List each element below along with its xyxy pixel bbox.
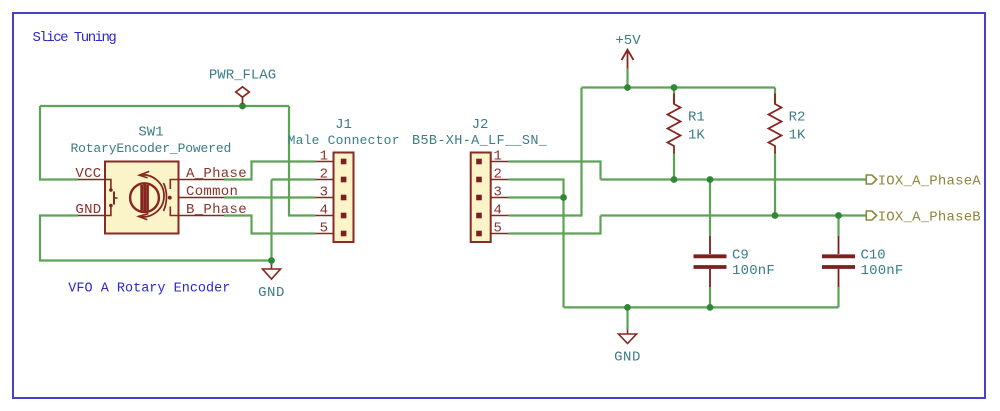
wire B_Phase to J1 pin5 bbox=[224, 216, 316, 234]
svg-text:GND: GND bbox=[258, 285, 285, 301]
SW1 switch contact dots bbox=[109, 188, 113, 192]
wire vcc feed to J1 pin4 bbox=[289, 106, 316, 216]
C9 top plate bbox=[694, 254, 727, 258]
SW1 body box bbox=[105, 162, 179, 234]
C10 top lead stub bbox=[838, 236, 840, 254]
svg-text:1K: 1K bbox=[688, 128, 705, 144]
SW1 pin GND bbox=[78, 215, 105, 217]
wire J2 pin2 down to gnd rail bbox=[509, 180, 564, 308]
junction C9 bottom bbox=[707, 304, 714, 311]
svg-text:SW1: SW1 bbox=[138, 125, 163, 141]
wire gnd right stem bbox=[626, 307, 628, 329]
gnd right stem bbox=[627, 330, 629, 335]
wire J1 pin2 gnd vertical bbox=[270, 180, 272, 261]
svg-text:4: 4 bbox=[320, 203, 328, 219]
wire J1 pin2 bbox=[272, 178, 316, 180]
wire left gnd stem bbox=[270, 261, 272, 266]
wire R1 top lead bbox=[673, 88, 675, 105]
wire PhaseB line bbox=[601, 214, 867, 216]
svg-text:4: 4 bbox=[494, 203, 502, 219]
gnd left triangle bbox=[263, 269, 281, 279]
svg-text:IOX_A_PhaseB: IOX_A_PhaseB bbox=[878, 209, 981, 225]
svg-text:GND: GND bbox=[75, 202, 101, 218]
svg-text:IOX_A_PhaseA: IOX_A_PhaseA bbox=[878, 173, 982, 189]
wire C9 top lead bbox=[709, 180, 711, 237]
svg-text:VCC: VCC bbox=[75, 166, 101, 182]
C10 bottom plate bbox=[822, 265, 855, 269]
junction R1 bottom bbox=[671, 176, 678, 183]
svg-text:VFO A Rotary Encoder: VFO A Rotary Encoder bbox=[68, 282, 230, 297]
svg-text:B5B-XH-A_LF__SN_: B5B-XH-A_LF__SN_ bbox=[412, 134, 548, 149]
J1 body box bbox=[334, 153, 354, 243]
J1 pin 5 line bbox=[316, 233, 334, 235]
wire R2 bottom lead bbox=[774, 153, 776, 216]
svg-text:1: 1 bbox=[494, 149, 502, 165]
J2 pin 3 line bbox=[491, 197, 509, 199]
svg-text:5: 5 bbox=[320, 221, 328, 237]
SW1 rotation arc with arrows bbox=[139, 175, 164, 217]
J1 pin 4 line bbox=[316, 215, 334, 217]
wire C10 bottom lead bbox=[837, 287, 839, 307]
wire R2 top lead bbox=[774, 88, 776, 105]
SW1 switch contacts bbox=[105, 180, 118, 216]
gnd right triangle bbox=[619, 334, 637, 344]
C9 bottom lead stub bbox=[709, 269, 711, 287]
svg-text:2: 2 bbox=[320, 167, 328, 183]
junction R2 bottom bbox=[772, 212, 779, 219]
C9 top lead stub bbox=[709, 236, 711, 254]
J2 pin 5 line bbox=[491, 233, 509, 235]
svg-text:PWR_FLAG: PWR_FLAG bbox=[209, 67, 276, 83]
wire J2 pin5 jog to PhaseB bbox=[509, 216, 601, 234]
J2 pin 4 line bbox=[491, 215, 509, 217]
wire C10 top lead bbox=[837, 216, 839, 237]
pwr_flag diamond bbox=[236, 87, 249, 97]
wire J2 pin3 bbox=[509, 196, 564, 198]
SW1 encoder wheel circle bbox=[130, 183, 159, 212]
svg-text:C9: C9 bbox=[732, 248, 749, 264]
SW1 pin VCC bbox=[78, 179, 105, 181]
junction PWR_FLAG bbox=[239, 103, 246, 110]
J2 pin 1 line bbox=[491, 161, 509, 163]
svg-text:3: 3 bbox=[320, 185, 328, 201]
J2 pin numbers bbox=[494, 149, 502, 237]
junction left gnd bbox=[268, 257, 275, 264]
C10 bottom lead stub bbox=[838, 269, 840, 287]
wire C9 bottom lead bbox=[709, 287, 711, 307]
svg-text:100nF: 100nF bbox=[861, 263, 904, 279]
svg-text:2: 2 bbox=[494, 167, 502, 183]
J1 pin squares bbox=[341, 159, 347, 237]
J2 body box bbox=[471, 153, 491, 243]
wire +5V rail bbox=[582, 86, 776, 88]
junction C10 top bbox=[835, 212, 842, 219]
svg-text:R2: R2 bbox=[789, 110, 806, 126]
SW1 pin B_Phase bbox=[179, 215, 225, 217]
svg-text:1K: 1K bbox=[789, 128, 806, 144]
wire gnd left loop bbox=[40, 216, 272, 261]
svg-text:RotaryEncoder_Powered: RotaryEncoder_Powered bbox=[70, 141, 231, 156]
svg-text:J2: J2 bbox=[472, 117, 489, 133]
gnd left stem bbox=[271, 265, 273, 270]
wire Common to J1 pin3 bbox=[224, 196, 316, 198]
SW1 wiper arc bbox=[164, 183, 167, 211]
wire top rail PWR_FLAG bbox=[40, 105, 289, 107]
+5V arrowhead bbox=[622, 50, 634, 60]
J1 pin 3 line bbox=[316, 197, 334, 199]
J2 pin 2 line bbox=[491, 179, 509, 181]
wire J2 pin4 to +5V rail bbox=[509, 88, 582, 216]
svg-text:R1: R1 bbox=[688, 110, 705, 126]
wire R1 bottom lead bbox=[673, 153, 675, 180]
+5V arrow stem bbox=[627, 50, 629, 69]
SW1 pin Common bbox=[179, 197, 225, 199]
svg-text:100nF: 100nF bbox=[732, 263, 775, 279]
junction J2 pin3 tee bbox=[560, 194, 567, 201]
IOX_A_PhaseB shape bbox=[866, 211, 876, 220]
IOX_A_PhaseA shape bbox=[866, 175, 876, 184]
svg-text:GND: GND bbox=[614, 350, 641, 366]
junction R1 top bbox=[671, 84, 678, 91]
svg-text:B_Phase: B_Phase bbox=[186, 202, 247, 218]
svg-text:C10: C10 bbox=[861, 248, 886, 264]
SW1 wiper dot bbox=[168, 196, 172, 200]
R2 zigzag bbox=[769, 94, 782, 154]
svg-text:Common: Common bbox=[186, 184, 238, 200]
junction C9 top bbox=[707, 176, 714, 183]
svg-text:J1: J1 bbox=[335, 117, 352, 133]
svg-text:Slice Tuning: Slice Tuning bbox=[33, 30, 117, 46]
SW1 contact A bracket bbox=[170, 180, 178, 190]
J2 pin squares bbox=[476, 159, 482, 237]
J1 pin 1 line bbox=[316, 161, 334, 163]
C10 top plate bbox=[822, 254, 855, 258]
wire gnd rail bottom right bbox=[564, 306, 839, 308]
J1 pin numbers bbox=[320, 149, 328, 237]
SW1 contact B bracket bbox=[170, 207, 178, 216]
wire +5V stem bbox=[626, 69, 628, 88]
wire left vcc drop bbox=[40, 106, 78, 180]
SW1 pin A_Phase bbox=[179, 179, 225, 181]
wire J2 pin1 jog to PhaseA bbox=[509, 162, 601, 180]
C9 bottom plate bbox=[694, 265, 727, 269]
J1 pin 2 line bbox=[316, 179, 334, 181]
svg-text:5: 5 bbox=[494, 221, 502, 237]
svg-text:3: 3 bbox=[494, 185, 502, 201]
svg-text:A_Phase: A_Phase bbox=[186, 166, 247, 182]
wire A_Phase to J1 pin1 bbox=[224, 162, 316, 180]
svg-text:+5V: +5V bbox=[615, 33, 641, 49]
SW1 encoder wheel hatch bbox=[142, 183, 148, 212]
svg-text:Male Connector: Male Connector bbox=[288, 133, 400, 148]
junction gnd rail stem bbox=[624, 304, 631, 311]
wire PhaseA line bbox=[601, 178, 867, 180]
pwr_flag stem bbox=[242, 97, 244, 104]
junction +5V stem bbox=[624, 84, 631, 91]
svg-text:1: 1 bbox=[320, 149, 328, 165]
R1 zigzag bbox=[668, 94, 681, 154]
